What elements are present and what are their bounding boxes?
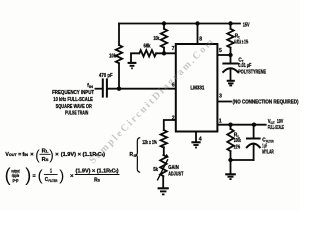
- wire middle branch bottom (10k to pin7 node): [163, 48, 165, 54]
- svg-text:(NO CONNECTION REQUIRED): (NO CONNECTION REQUIRED): [233, 100, 299, 106]
- svg-text:FULL-SCALE: FULL-SCALE: [268, 125, 284, 131]
- wire pot to ground: [162, 176, 164, 188]
- brace for Rs group: [136, 138, 141, 173]
- svg-text:): ): [25, 165, 31, 185]
- formula output ripple p-p = (1/Cfilter) x (1.9V)(1.1RtCt)/RS: [5, 165, 120, 185]
- capacitor 470pF right plate: [106, 79, 108, 96]
- svg-text:100k: 100k: [234, 138, 242, 144]
- svg-text:(: (: [5, 165, 11, 185]
- capacitor Ct stem bottom: [230, 68, 232, 80]
- capacitor Ct top plate: [223, 63, 237, 65]
- formula Vout = fIN x (RL/RS) x (1.9V) x (1.1RtCt): [5, 147, 105, 163]
- wire pin 2 (IC to Rs chain): [164, 120, 176, 130]
- svg-text:GAIN: GAIN: [168, 165, 179, 171]
- svg-text:2: 2: [172, 116, 175, 122]
- svg-text:10k: 10k: [153, 36, 160, 42]
- wire middle branch top (rail to 10k pin7): [163, 24, 165, 29]
- wire Rt to pin5 node: [230, 48, 232, 55]
- wire output ground stem: [230, 160, 232, 174]
- svg-text:): ): [59, 167, 64, 184]
- wire pin 4 to ground: [195, 132, 197, 143]
- resistor 10k (input bias upper): [116, 45, 122, 63]
- svg-text:(: (: [35, 147, 40, 162]
- potentiometer arrow head: [164, 154, 169, 159]
- svg-text:0.01 µF: 0.01 µF: [238, 63, 251, 69]
- svg-text:1: 1: [50, 168, 52, 174]
- wire pin 7 (68k to IC): [156, 52, 176, 54]
- svg-text:7: 7: [172, 46, 175, 52]
- junction node pin5/Rt/Ct: [228, 53, 232, 57]
- junction node pin1/RL: [228, 123, 232, 127]
- junction node rail/Rt: [228, 21, 232, 25]
- junction node RL bottom: [228, 158, 232, 162]
- wire RL top stem: [230, 125, 232, 129]
- wire left branch bottom (10k to input node): [118, 63, 120, 88]
- op-amp U1 LM331 body: [176, 44, 218, 132]
- wire input lead left: [96, 88, 102, 90]
- svg-text:p-p: p-p: [13, 177, 19, 182]
- svg-text:68k: 68k: [144, 43, 152, 49]
- wire RL bottom stem: [230, 151, 232, 160]
- svg-text:ADJUST: ADJUST: [168, 171, 184, 177]
- svg-text:IN: IN: [89, 84, 93, 89]
- wire 68k ground stub: [131, 53, 139, 62]
- capacitor Cfilter stem top: [253, 125, 255, 139]
- svg-text:15V: 15V: [243, 22, 250, 28]
- ground symbol at output filter: [225, 173, 236, 175]
- wire pin 3 stub (no connection): [217, 101, 231, 103]
- capacitor 470pF left plate: [102, 79, 104, 96]
- wire pin 5 (IC to Ct node): [217, 54, 230, 56]
- svg-text:): ): [49, 147, 54, 162]
- capacitor Cfilter stem bottom: [253, 144, 255, 160]
- svg-text:PULSE TRAIN: PULSE TRAIN: [65, 110, 88, 116]
- ground symbol at pin 4: [191, 141, 200, 143]
- svg-text:10 kHz FULL-SCALE: 10 kHz FULL-SCALE: [53, 97, 93, 103]
- resistor 10k (pin 7 pull-up): [161, 29, 167, 48]
- svg-text:FILTER: FILTER: [48, 178, 57, 183]
- svg-text:8: 8: [199, 36, 202, 42]
- potentiometer wiper arrow shaft: [158, 160, 168, 180]
- svg-text:(1.9V) × (1.1RtCt): (1.9V) × (1.1RtCt): [76, 169, 119, 175]
- junction node rail/pin8: [195, 21, 199, 25]
- svg-text:±1%: ±1%: [234, 145, 241, 151]
- junction node pin1/Cfilter: [252, 123, 256, 127]
- ground symbol at gain pot: [158, 187, 169, 189]
- resistor Rt 6.81k: [227, 29, 233, 48]
- junction node input: [117, 87, 121, 91]
- svg-text:POLYSTYRENE: POLYSTYRENE: [238, 69, 266, 75]
- ground symbol at Ct: [227, 80, 235, 82]
- svg-text:(1.9V): (1.9V): [61, 152, 76, 158]
- svg-text:FREQUENCY INPUT: FREQUENCY INPUT: [52, 90, 94, 96]
- potentiometer 5k resistive element: [160, 155, 166, 176]
- wire Rt branch top (rail to Rt): [230, 24, 232, 29]
- svg-text:LM331: LM331: [190, 86, 204, 92]
- svg-text:3: 3: [219, 94, 222, 100]
- capacitor Ct curved bottom plate: [223, 68, 238, 72]
- svg-text:5: 5: [219, 48, 222, 54]
- svg-text:10k: 10k: [109, 53, 117, 59]
- svg-text:1: 1: [219, 119, 222, 125]
- ground symbol at 68k: [128, 62, 137, 64]
- capacitor Cfilter curved bottom plate: [247, 144, 260, 148]
- svg-text:470 pF: 470 pF: [99, 73, 113, 79]
- resistor RL 100k: [227, 129, 233, 151]
- svg-text:MYLAR: MYLAR: [262, 150, 273, 156]
- capacitor Cfilter top plate: [247, 138, 260, 140]
- svg-text:4: 4: [199, 136, 202, 142]
- wire pin 8 (rail to IC top): [197, 24, 199, 45]
- wire +15V supply rail: [119, 23, 240, 25]
- wire pin 1 output line: [217, 124, 265, 126]
- svg-text:5k: 5k: [153, 167, 158, 173]
- wire input cap to pin 6: [108, 88, 176, 90]
- junction node pin7: [162, 51, 166, 55]
- junction node rail/10k: [162, 21, 166, 25]
- svg-text:12k ± 1%: 12k ± 1%: [142, 140, 157, 146]
- wire 12k to pot: [163, 147, 165, 155]
- svg-text:(: (: [38, 167, 43, 184]
- wire Cfilter bottom to RL bottom: [231, 159, 254, 161]
- svg-text:SQUARE WAVE OR: SQUARE WAVE OR: [56, 104, 92, 110]
- svg-text:6.81k ± 1%: 6.81k ± 1%: [234, 40, 248, 46]
- resistor 12k 1%: [161, 130, 167, 148]
- resistor 68k: [139, 50, 156, 56]
- wire left branch top (rail to 10k): [118, 24, 120, 46]
- capacitor Ct stem top: [230, 55, 232, 64]
